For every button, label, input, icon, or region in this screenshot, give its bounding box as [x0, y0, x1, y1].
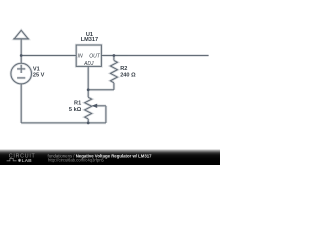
node junction ADJ	[87, 88, 90, 91]
ground	[13, 30, 29, 39]
svg-text:R1: R1	[74, 100, 81, 106]
wire ADJ junction to R2 bottom	[88, 89, 114, 91]
svg-text:LM317: LM317	[81, 37, 98, 43]
svg-text:R2: R2	[120, 66, 127, 72]
wire OUT to right edge	[101, 55, 208, 57]
R1 wiper arrowhead	[92, 104, 98, 108]
wire V1 top lead	[20, 56, 22, 64]
regulator IC U1 LM317 body	[76, 45, 101, 66]
wire ADJ vertical	[87, 66, 89, 89]
resistor R2	[110, 56, 117, 90]
svg-text:240 Ω: 240 Ω	[120, 72, 136, 78]
footer bar	[0, 150, 220, 166]
svg-text:IN: IN	[78, 54, 83, 60]
svg-text:V1: V1	[33, 66, 40, 72]
wire bottom horizontal	[21, 122, 106, 124]
svg-text:LAB: LAB	[22, 158, 33, 164]
wire ground stem	[20, 39, 22, 56]
voltage source V1	[11, 63, 32, 84]
wire V1 bottom lead	[20, 84, 22, 123]
wire R1 wiper loop	[96, 106, 106, 123]
potentiometer R1	[85, 90, 92, 123]
svg-text:OUT: OUT	[89, 54, 101, 60]
node junction top-left	[20, 54, 23, 57]
CircuitLab logo	[7, 153, 36, 164]
node junction bottom	[87, 122, 90, 125]
node junction OUT/R2	[113, 54, 116, 57]
svg-text:ADJ: ADJ	[83, 61, 94, 67]
svg-text:25 V: 25 V	[33, 73, 45, 79]
svg-text:http://circuitlab.com/c4q3rfpn: http://circuitlab.com/c4q3rfpn5	[48, 158, 105, 163]
svg-text:5 kΩ: 5 kΩ	[69, 107, 82, 113]
wire top-left horizontal to IN	[21, 55, 76, 57]
